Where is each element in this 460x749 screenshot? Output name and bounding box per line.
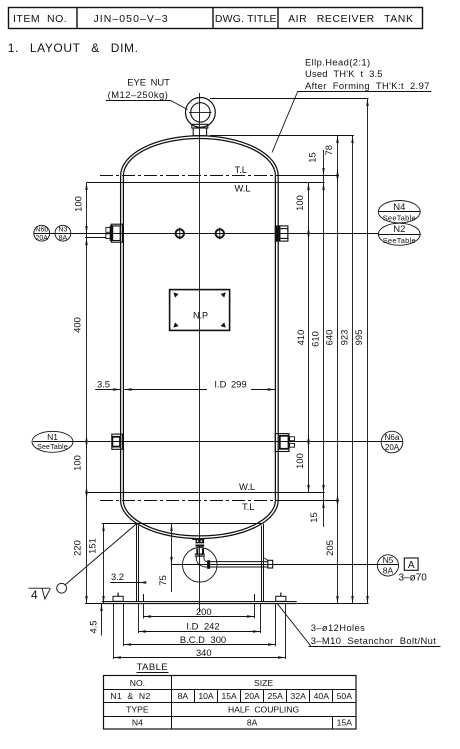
svg-text:20A: 20A	[244, 691, 260, 701]
svg-text:10A: 10A	[198, 691, 214, 701]
svg-text:205: 205	[324, 540, 335, 556]
svg-text:15: 15	[308, 512, 319, 522]
svg-text:I.D 242: I.D 242	[186, 621, 219, 632]
svg-text:400: 400	[71, 317, 82, 333]
svg-text:JIN–050–V–3: JIN–050–V–3	[94, 13, 169, 25]
svg-text:W.L: W.L	[239, 481, 255, 492]
svg-text:SeeTable: SeeTable	[383, 236, 416, 245]
svg-text:N4: N4	[132, 718, 143, 728]
svg-text:N2: N2	[393, 224, 405, 235]
svg-text:TABLE: TABLE	[137, 662, 168, 673]
svg-text:T.L: T.L	[235, 164, 248, 175]
svg-text:Used THʹK t 3.5: Used THʹK t 3.5	[305, 68, 383, 79]
svg-text:4.5: 4.5	[88, 620, 99, 633]
svg-text:78: 78	[323, 145, 334, 155]
svg-text:B.C.D 300: B.C.D 300	[180, 634, 226, 645]
svg-text:100: 100	[294, 195, 305, 211]
svg-text:3–ø70: 3–ø70	[399, 573, 428, 584]
svg-text:3–ø12Holes: 3–ø12Holes	[311, 622, 366, 633]
svg-text:8A: 8A	[247, 718, 258, 728]
svg-text:151: 151	[87, 538, 98, 554]
svg-text:1. LAYOUT & DIM.: 1. LAYOUT & DIM.	[8, 41, 139, 55]
svg-text:8A: 8A	[59, 235, 68, 242]
svg-text:T.L: T.L	[242, 501, 255, 512]
svg-text:100: 100	[71, 455, 82, 471]
svg-text:220: 220	[71, 540, 82, 556]
svg-text:(M12–250kg): (M12–250kg)	[108, 89, 169, 100]
svg-text:15A: 15A	[337, 718, 353, 728]
svg-text:610: 610	[309, 331, 320, 347]
svg-text:3.2: 3.2	[111, 571, 124, 582]
svg-text:N1: N1	[47, 432, 58, 442]
svg-text:100: 100	[73, 196, 84, 212]
svg-text:ITEM NO.: ITEM NO.	[13, 13, 67, 25]
svg-text:923: 923	[338, 330, 349, 346]
svg-text:SeeTable: SeeTable	[383, 213, 416, 222]
svg-text:3–M10 Setanchor Bolt/Nut: 3–M10 Setanchor Bolt/Nut	[311, 635, 437, 646]
svg-text:640: 640	[324, 330, 335, 346]
svg-text:N3: N3	[58, 227, 67, 234]
svg-text:20A: 20A	[385, 443, 400, 452]
svg-text:SeeTable: SeeTable	[37, 444, 68, 451]
svg-text:410: 410	[295, 330, 306, 346]
svg-text:W.L: W.L	[235, 183, 251, 194]
svg-text:N6b: N6b	[35, 227, 48, 234]
svg-text:SIZE: SIZE	[254, 678, 273, 688]
svg-text:995: 995	[353, 330, 364, 346]
svg-text:HALF COUPLING: HALF COUPLING	[228, 705, 300, 715]
svg-text:40A: 40A	[314, 691, 330, 701]
svg-text:75: 75	[157, 575, 168, 585]
svg-text:AIR RECEIVER TANK: AIR RECEIVER TANK	[288, 13, 413, 25]
svg-text:TYPE: TYPE	[126, 705, 149, 715]
svg-text:8A: 8A	[383, 566, 394, 576]
svg-text:3.5: 3.5	[97, 378, 110, 389]
svg-text:N5: N5	[383, 555, 394, 565]
svg-text:200: 200	[196, 606, 212, 617]
svg-text:EYE NUT: EYE NUT	[127, 77, 170, 88]
svg-text:NO.: NO.	[130, 678, 145, 688]
svg-text:100: 100	[294, 453, 305, 469]
svg-text:Ellp.Head(2:1): Ellp.Head(2:1)	[305, 56, 371, 67]
svg-text:50A: 50A	[337, 691, 353, 701]
svg-text:20A: 20A	[35, 235, 48, 242]
svg-text:8A: 8A	[178, 691, 189, 701]
svg-text:DWG. TITLE: DWG. TITLE	[215, 13, 277, 25]
svg-text:15: 15	[307, 152, 318, 162]
svg-text:I.D 299: I.D 299	[214, 378, 246, 389]
svg-text:25A: 25A	[268, 691, 284, 701]
svg-text:15A: 15A	[221, 691, 237, 701]
svg-text:N.P: N.P	[193, 311, 208, 321]
svg-text:32A: 32A	[291, 691, 307, 701]
svg-text:N6a: N6a	[385, 433, 400, 442]
svg-text:After Forming THʹK:t 2.97: After Forming THʹK:t 2.97	[305, 80, 430, 91]
svg-text:N1 & N2: N1 & N2	[110, 691, 150, 701]
svg-text:A: A	[408, 560, 415, 571]
svg-text:N4: N4	[393, 202, 405, 213]
svg-text:4: 4	[31, 588, 38, 602]
svg-text:340: 340	[196, 647, 212, 658]
